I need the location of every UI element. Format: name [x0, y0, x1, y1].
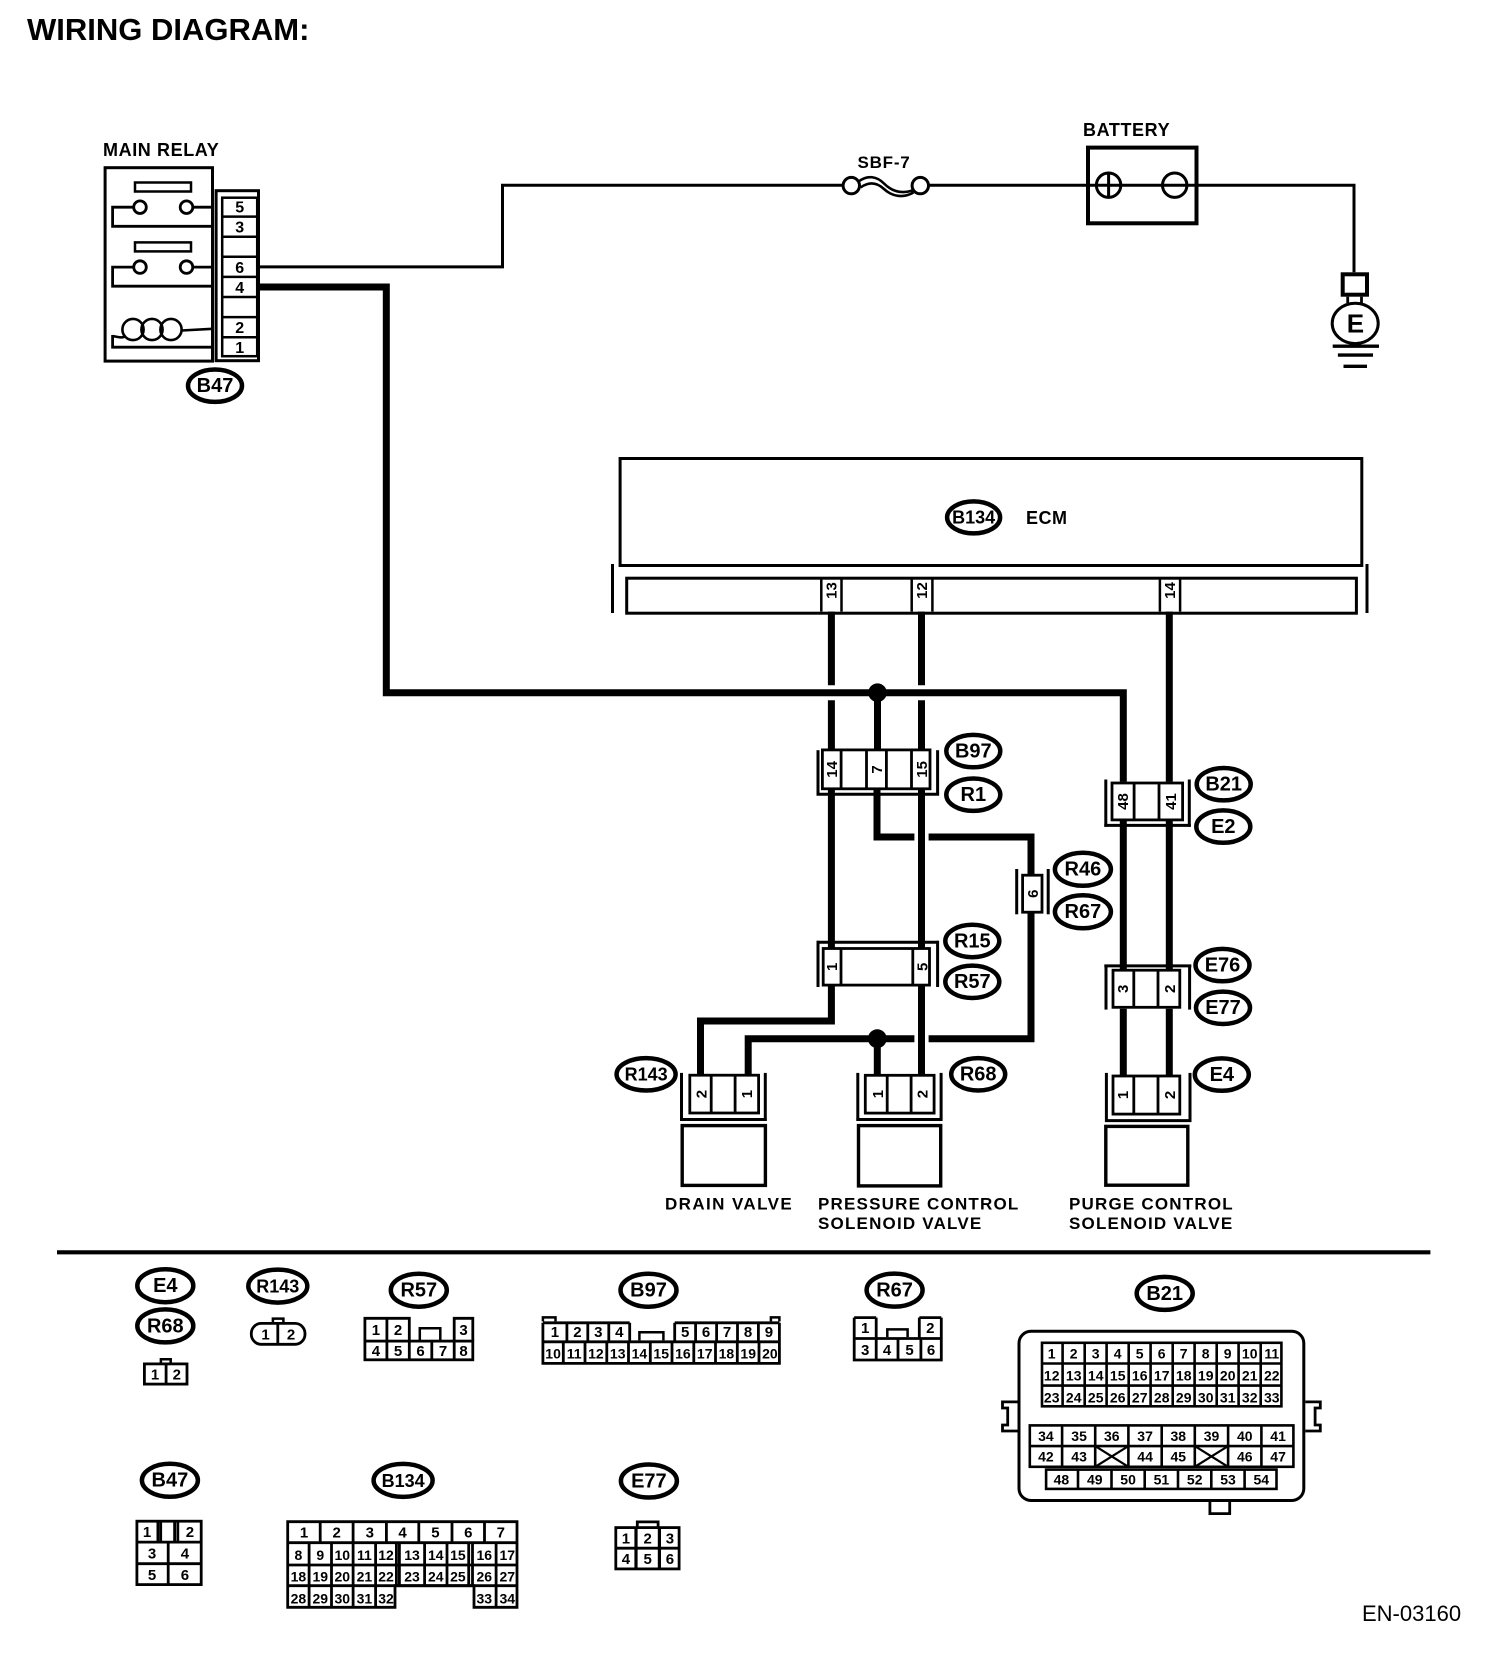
svg-text:49: 49 — [1087, 1471, 1103, 1487]
label B97 — [946, 735, 1000, 767]
label B134 pinout — [374, 1464, 433, 1497]
svg-text:R143: R143 — [625, 1065, 668, 1085]
relay contact 1 wiring — [113, 207, 213, 226]
pressure valve pin labels 1 2 — [870, 1090, 932, 1098]
svg-text:4: 4 — [622, 1551, 631, 1568]
svg-text:12: 12 — [378, 1547, 394, 1563]
wire B97 pin7 down then right to connector 6 (break at pin15 wire) — [877, 790, 914, 837]
svg-text:R15: R15 — [954, 930, 991, 952]
wire B97 pin14 down to R15 pin1 — [828, 790, 835, 948]
svg-text:13: 13 — [610, 1345, 626, 1361]
connector B97 pin diagram — [543, 1323, 780, 1364]
svg-text:1: 1 — [622, 1530, 630, 1547]
relay coil — [122, 319, 143, 340]
svg-text:32: 32 — [378, 1590, 394, 1606]
svg-text:9: 9 — [765, 1324, 773, 1341]
svg-text:33: 33 — [477, 1590, 493, 1606]
svg-text:PURGE CONTROL: PURGE CONTROL — [1069, 1195, 1234, 1214]
ground connector block — [1343, 274, 1367, 294]
svg-text:1: 1 — [739, 1090, 756, 1098]
ground symbol — [1333, 345, 1379, 348]
ECM box B134 — [620, 459, 1362, 566]
svg-text:2: 2 — [1162, 985, 1179, 993]
svg-text:30: 30 — [335, 1590, 351, 1606]
label R15 — [945, 925, 999, 957]
wire B97 pin15 down to R57 pin5 — [918, 790, 925, 948]
svg-text:8: 8 — [1202, 1345, 1210, 1361]
connector E76/E77 bracket — [1104, 964, 1191, 967]
svg-text:34: 34 — [1038, 1428, 1054, 1444]
connector E77 pin diagram — [616, 1522, 679, 1569]
svg-text:E76: E76 — [1205, 955, 1241, 977]
svg-text:ECM: ECM — [1026, 508, 1068, 528]
svg-text:3: 3 — [594, 1324, 602, 1341]
E76 pin labels 3 2 — [1115, 985, 1179, 993]
drain valve body — [682, 1126, 765, 1186]
drain valve connector bracket — [680, 1073, 683, 1121]
ECM label ellipse B134 — [947, 501, 1000, 533]
svg-text:6: 6 — [416, 1343, 424, 1360]
wire battery to ground — [1197, 185, 1355, 272]
connector R46/R67 pin box — [1023, 875, 1042, 912]
svg-text:29: 29 — [1176, 1389, 1192, 1405]
connector R46/R67 bracket — [1015, 869, 1018, 914]
svg-text:9: 9 — [1224, 1345, 1232, 1361]
svg-text:2: 2 — [1070, 1345, 1078, 1361]
B21 bottom grid pins 48-54 — [1046, 1470, 1276, 1489]
label R57 — [945, 966, 999, 998]
svg-text:13: 13 — [404, 1547, 420, 1563]
svg-text:2: 2 — [235, 320, 244, 337]
svg-text:17: 17 — [500, 1547, 516, 1563]
wire ECM pin14 to B21 pin41 — [1166, 612, 1173, 782]
battery minus terminal — [1163, 173, 1187, 197]
svg-text:6: 6 — [235, 260, 244, 277]
B21 top grid pins 1-33 — [1042, 1343, 1281, 1407]
svg-text:31: 31 — [1220, 1389, 1236, 1405]
svg-text:E2: E2 — [1211, 816, 1235, 838]
svg-text:2: 2 — [1162, 1091, 1179, 1099]
connector R15/R57 pin box — [823, 949, 929, 986]
relay connector outer housing — [216, 191, 258, 361]
svg-text:1: 1 — [261, 1326, 269, 1343]
svg-text:3: 3 — [861, 1342, 869, 1359]
ground terminal E — [1332, 303, 1378, 343]
connector B97/R1 bracket — [817, 750, 820, 794]
svg-text:17: 17 — [697, 1345, 713, 1361]
relay coil return wiring — [113, 335, 213, 347]
svg-text:1: 1 — [372, 1322, 380, 1339]
purge valve connector bracket — [1105, 1073, 1108, 1122]
svg-text:15: 15 — [1110, 1367, 1126, 1383]
label B47 pinout — [142, 1464, 198, 1497]
svg-text:PRESSURE CONTROL: PRESSURE CONTROL — [818, 1195, 1020, 1214]
connector B21/E2 bracket — [1104, 780, 1107, 827]
svg-text:B47: B47 — [197, 375, 234, 397]
svg-text:42: 42 — [1038, 1449, 1054, 1465]
pressure valve pin box — [865, 1075, 934, 1113]
svg-text:12: 12 — [1044, 1367, 1060, 1383]
svg-text:46: 46 — [1237, 1449, 1253, 1465]
wire relay pin6 to fuse — [259, 185, 843, 267]
svg-text:SBF-7: SBF-7 — [857, 153, 910, 172]
connector R57 pin diagram — [365, 1318, 473, 1360]
wire B21 pin48 down to E76 pin3 — [1120, 821, 1127, 971]
junction dot above pressure valve pin1 — [868, 1029, 887, 1048]
relay contact 1 left terminal — [134, 201, 147, 214]
svg-text:15: 15 — [914, 761, 931, 778]
B97 pin labels 14 7 15 — [824, 760, 931, 777]
label R68 pinout — [137, 1309, 193, 1342]
svg-text:10: 10 — [1242, 1345, 1258, 1361]
svg-text:E4: E4 — [153, 1275, 178, 1297]
fuse SBF-7 — [843, 177, 859, 193]
wire fuse to battery — [929, 184, 1088, 187]
label E77 — [1196, 992, 1250, 1024]
svg-text:16: 16 — [1132, 1367, 1148, 1383]
svg-text:41: 41 — [1270, 1428, 1286, 1444]
B21 right side lug — [1305, 1402, 1320, 1431]
svg-text:5: 5 — [1136, 1345, 1144, 1361]
svg-text:B134: B134 — [382, 1471, 425, 1491]
svg-text:12: 12 — [588, 1345, 604, 1361]
drain valve pin labels 2 1 — [693, 1090, 756, 1098]
svg-text:5: 5 — [394, 1343, 402, 1360]
svg-text:33: 33 — [1264, 1389, 1280, 1405]
svg-text:25: 25 — [1088, 1389, 1104, 1405]
svg-text:9: 9 — [316, 1547, 324, 1563]
svg-text:3: 3 — [148, 1546, 156, 1563]
svg-text:2: 2 — [333, 1525, 341, 1542]
svg-text:14: 14 — [1088, 1367, 1104, 1383]
ECM connector bracket left — [611, 564, 614, 613]
svg-text:31: 31 — [357, 1590, 373, 1606]
label B21 pinout — [1137, 1277, 1193, 1310]
label R143 — [617, 1058, 676, 1090]
svg-text:15: 15 — [653, 1345, 669, 1361]
svg-text:13: 13 — [1066, 1367, 1082, 1383]
svg-text:11: 11 — [567, 1345, 582, 1361]
wire ECM pin13 to B97 pin14 (break at thick wire) — [828, 612, 835, 686]
svg-text:8: 8 — [459, 1343, 467, 1360]
svg-text:21: 21 — [357, 1569, 373, 1585]
label R143 pinout — [248, 1270, 307, 1303]
svg-text:24: 24 — [1066, 1389, 1082, 1405]
R15 pin labels 1 5 — [824, 963, 932, 971]
wire junction to pressure valve pin1 — [874, 1039, 881, 1076]
svg-text:B97: B97 — [630, 1280, 667, 1302]
svg-text:1: 1 — [551, 1324, 559, 1341]
wire ECM pin12 to B97 pin15 (break at thick wire) — [918, 612, 925, 686]
svg-text:13: 13 — [824, 582, 841, 599]
svg-text:5: 5 — [148, 1567, 156, 1584]
svg-text:19: 19 — [740, 1345, 756, 1361]
ECM pin 12 cell — [912, 578, 933, 611]
svg-text:14: 14 — [632, 1345, 648, 1361]
B21 bottom lug — [1210, 1502, 1230, 1514]
connector R15/R57 bracket — [817, 941, 939, 944]
pressure valve body — [859, 1126, 941, 1186]
svg-text:12: 12 — [914, 582, 931, 599]
svg-text:16: 16 — [477, 1547, 493, 1563]
svg-text:4: 4 — [398, 1525, 407, 1542]
svg-text:30: 30 — [1198, 1389, 1214, 1405]
relay pin numbers — [235, 200, 244, 358]
ECM connector strip — [627, 578, 1357, 613]
svg-text:19: 19 — [313, 1569, 329, 1585]
connector E76/E77 pin box — [1113, 970, 1180, 1007]
svg-text:DRAIN VALVE: DRAIN VALVE — [665, 1195, 793, 1214]
svg-text:1: 1 — [861, 1320, 869, 1337]
svg-text:53: 53 — [1220, 1471, 1236, 1487]
svg-text:5: 5 — [914, 963, 931, 971]
svg-text:39: 39 — [1204, 1428, 1220, 1444]
label E4 — [1195, 1058, 1249, 1090]
svg-text:19: 19 — [1198, 1367, 1214, 1383]
ECM pin 13 cell — [821, 578, 841, 611]
svg-text:47: 47 — [1270, 1449, 1286, 1465]
wire E76 pin2 down to purge valve pin2 — [1166, 1009, 1173, 1076]
label E4 pinout — [137, 1269, 193, 1302]
svg-text:4: 4 — [235, 280, 244, 297]
svg-text:6: 6 — [702, 1324, 710, 1341]
B21 middle grid pins 34-47 — [1030, 1425, 1294, 1466]
connector B97/R1 pin box — [822, 750, 930, 789]
main relay box B47 — [105, 168, 212, 361]
label R46 — [1055, 853, 1111, 886]
relay contact 1 right terminal — [180, 201, 193, 214]
svg-text:7: 7 — [439, 1343, 447, 1360]
svg-text:6: 6 — [1158, 1345, 1166, 1361]
wire junction to B97 pin7 — [874, 693, 881, 749]
svg-text:R57: R57 — [400, 1280, 437, 1302]
connector B21/E2 pin box — [1112, 783, 1183, 820]
svg-text:3: 3 — [235, 220, 244, 237]
svg-text:10: 10 — [545, 1345, 561, 1361]
purge valve pin box — [1113, 1076, 1180, 1114]
connector B47 pin diagram — [137, 1521, 201, 1584]
svg-text:18: 18 — [291, 1569, 307, 1585]
svg-text:R68: R68 — [147, 1315, 184, 1337]
svg-text:51: 51 — [1154, 1471, 1170, 1487]
svg-text:SOLENOID VALVE: SOLENOID VALVE — [818, 1214, 982, 1233]
svg-text:E77: E77 — [1205, 997, 1241, 1019]
svg-text:2: 2 — [644, 1530, 652, 1547]
svg-text:MAIN RELAY: MAIN RELAY — [103, 140, 219, 160]
svg-text:EN-03160: EN-03160 — [1362, 1601, 1461, 1626]
svg-text:2: 2 — [186, 1524, 194, 1541]
svg-text:R143: R143 — [256, 1277, 299, 1297]
svg-text:BATTERY: BATTERY — [1083, 120, 1170, 140]
svg-text:3: 3 — [366, 1525, 374, 1542]
label E76 — [1196, 949, 1250, 981]
svg-text:7: 7 — [1180, 1345, 1188, 1361]
label R1 — [946, 779, 1000, 811]
svg-text:2: 2 — [173, 1367, 181, 1384]
svg-text:45: 45 — [1171, 1449, 1187, 1465]
svg-text:23: 23 — [1044, 1389, 1060, 1405]
relay contact 2 right terminal — [180, 261, 193, 274]
purge valve body — [1106, 1126, 1188, 1185]
pressure valve connector bracket — [856, 1073, 859, 1121]
svg-text:1: 1 — [151, 1367, 159, 1384]
svg-text:26: 26 — [477, 1569, 493, 1585]
svg-text:32: 32 — [1242, 1389, 1258, 1405]
svg-text:5: 5 — [235, 200, 244, 217]
svg-text:48: 48 — [1115, 793, 1132, 810]
svg-text:5: 5 — [905, 1342, 913, 1359]
svg-text:20: 20 — [1220, 1367, 1236, 1383]
svg-text:22: 22 — [1264, 1367, 1280, 1383]
svg-text:27: 27 — [500, 1569, 516, 1585]
label B97 pinout — [621, 1274, 677, 1307]
svg-text:2: 2 — [915, 1090, 932, 1098]
svg-text:16: 16 — [675, 1345, 691, 1361]
svg-text:52: 52 — [1187, 1471, 1203, 1487]
wire through battery — [1088, 184, 1197, 187]
svg-text:14: 14 — [824, 760, 841, 777]
svg-text:B134: B134 — [952, 508, 995, 528]
wire R57 pin5 down to pressure valve pin2 — [918, 986, 925, 1076]
svg-text:WIRING DIAGRAM:: WIRING DIAGRAM: — [27, 12, 309, 47]
svg-text:6: 6 — [464, 1525, 472, 1542]
svg-text:4: 4 — [883, 1342, 892, 1359]
svg-text:18: 18 — [1176, 1367, 1192, 1383]
svg-text:B47: B47 — [152, 1470, 189, 1492]
svg-text:26: 26 — [1110, 1389, 1126, 1405]
relay contact 2 left terminal — [134, 261, 147, 274]
svg-text:7: 7 — [723, 1324, 731, 1341]
svg-text:2: 2 — [693, 1090, 710, 1098]
svg-text:10: 10 — [335, 1547, 351, 1563]
svg-text:4: 4 — [1114, 1345, 1122, 1361]
svg-text:3: 3 — [459, 1322, 467, 1339]
svg-text:11: 11 — [357, 1547, 372, 1563]
svg-text:18: 18 — [719, 1345, 735, 1361]
svg-text:1: 1 — [235, 340, 244, 357]
svg-text:2: 2 — [394, 1322, 402, 1339]
svg-text:1: 1 — [1048, 1345, 1056, 1361]
svg-text:24: 24 — [428, 1569, 444, 1585]
svg-text:4: 4 — [181, 1546, 190, 1563]
svg-text:B97: B97 — [955, 741, 992, 763]
svg-text:6: 6 — [666, 1551, 674, 1568]
svg-text:43: 43 — [1071, 1449, 1087, 1465]
label E2 — [1196, 810, 1250, 842]
svg-text:48: 48 — [1054, 1471, 1070, 1487]
svg-text:25: 25 — [450, 1569, 466, 1585]
svg-text:20: 20 — [762, 1345, 778, 1361]
svg-text:8: 8 — [295, 1547, 303, 1563]
svg-text:1: 1 — [300, 1525, 308, 1542]
svg-text:20: 20 — [335, 1569, 351, 1585]
wire connector 6 down then left to drain valve pin1 (break at R57 pin5 wire) — [929, 913, 1031, 1039]
B21 pin labels 48 41 — [1115, 793, 1180, 810]
label R68 — [951, 1058, 1005, 1090]
svg-text:7: 7 — [869, 765, 886, 773]
svg-text:54: 54 — [1254, 1471, 1270, 1487]
svg-text:5: 5 — [681, 1324, 689, 1341]
svg-text:B21: B21 — [1146, 1283, 1183, 1305]
svg-text:21: 21 — [1242, 1367, 1258, 1383]
label E77 pinout — [621, 1465, 677, 1498]
title WIRING DIAGRAM — [27, 12, 309, 47]
svg-text:37: 37 — [1137, 1428, 1153, 1444]
svg-text:40: 40 — [1237, 1428, 1253, 1444]
svg-text:2: 2 — [287, 1326, 295, 1343]
battery B1 — [1088, 148, 1197, 224]
svg-text:27: 27 — [1132, 1389, 1148, 1405]
wire E76 pin3 down to purge valve pin1 — [1120, 1009, 1127, 1076]
ECM pin 14 cell — [1160, 578, 1180, 611]
svg-text:38: 38 — [1171, 1428, 1187, 1444]
svg-text:29: 29 — [313, 1590, 329, 1606]
relay contact 2 wiring — [113, 267, 213, 286]
svg-text:8: 8 — [744, 1324, 752, 1341]
label B21 — [1197, 768, 1251, 800]
svg-text:6: 6 — [927, 1342, 935, 1359]
battery plus terminal — [1096, 173, 1120, 197]
svg-text:3: 3 — [1115, 985, 1132, 993]
B21 left side lug — [1003, 1402, 1018, 1431]
connector R68/E4 pin diagram — [161, 1359, 171, 1362]
svg-text:50: 50 — [1120, 1471, 1136, 1487]
purge valve pin labels 1 2 — [1115, 1091, 1179, 1099]
svg-text:23: 23 — [404, 1569, 420, 1585]
svg-text:6: 6 — [1025, 890, 1042, 898]
svg-text:R46: R46 — [1065, 859, 1102, 881]
svg-text:R1: R1 — [961, 784, 987, 806]
svg-text:34: 34 — [500, 1590, 516, 1606]
ECM connector bracket right — [1366, 564, 1369, 613]
svg-text:15: 15 — [450, 1547, 466, 1563]
svg-text:SOLENOID VALVE: SOLENOID VALVE — [1069, 1214, 1233, 1233]
label R57 pinout — [391, 1274, 447, 1307]
wire R15 pin1 down jog left to drain valve pin2 — [701, 986, 832, 1076]
connector R67 pin diagram — [854, 1318, 941, 1360]
svg-text:44: 44 — [1137, 1449, 1153, 1465]
svg-text:E77: E77 — [631, 1470, 667, 1492]
svg-text:35: 35 — [1071, 1428, 1087, 1444]
svg-text:14: 14 — [428, 1547, 444, 1563]
svg-text:4: 4 — [615, 1324, 624, 1341]
svg-text:5: 5 — [644, 1551, 652, 1568]
svg-text:R68: R68 — [960, 1064, 997, 1086]
connector R143 pin diagram — [273, 1319, 284, 1323]
thick wire relay pin4 to ECM area and B21 pin48 — [259, 287, 1124, 782]
svg-text:11: 11 — [1264, 1345, 1279, 1361]
svg-text:2: 2 — [573, 1324, 581, 1341]
svg-text:B21: B21 — [1205, 774, 1242, 796]
svg-text:7: 7 — [497, 1525, 505, 1542]
svg-text:22: 22 — [378, 1569, 394, 1585]
svg-text:2: 2 — [926, 1320, 934, 1337]
label R67 — [1055, 895, 1111, 928]
svg-text:E4: E4 — [1210, 1064, 1235, 1086]
svg-text:3: 3 — [666, 1530, 674, 1547]
svg-text:17: 17 — [1154, 1367, 1170, 1383]
svg-text:5: 5 — [431, 1525, 439, 1542]
svg-text:6: 6 — [181, 1567, 189, 1584]
svg-text:R57: R57 — [954, 971, 991, 993]
svg-text:3: 3 — [1092, 1345, 1100, 1361]
svg-text:E: E — [1347, 309, 1364, 339]
junction dot at thick wire and B97 pin7 — [868, 683, 887, 702]
svg-text:14: 14 — [1162, 582, 1179, 599]
svg-text:1: 1 — [143, 1524, 151, 1541]
relay connector pin box — [222, 198, 257, 357]
svg-text:41: 41 — [1163, 793, 1180, 810]
